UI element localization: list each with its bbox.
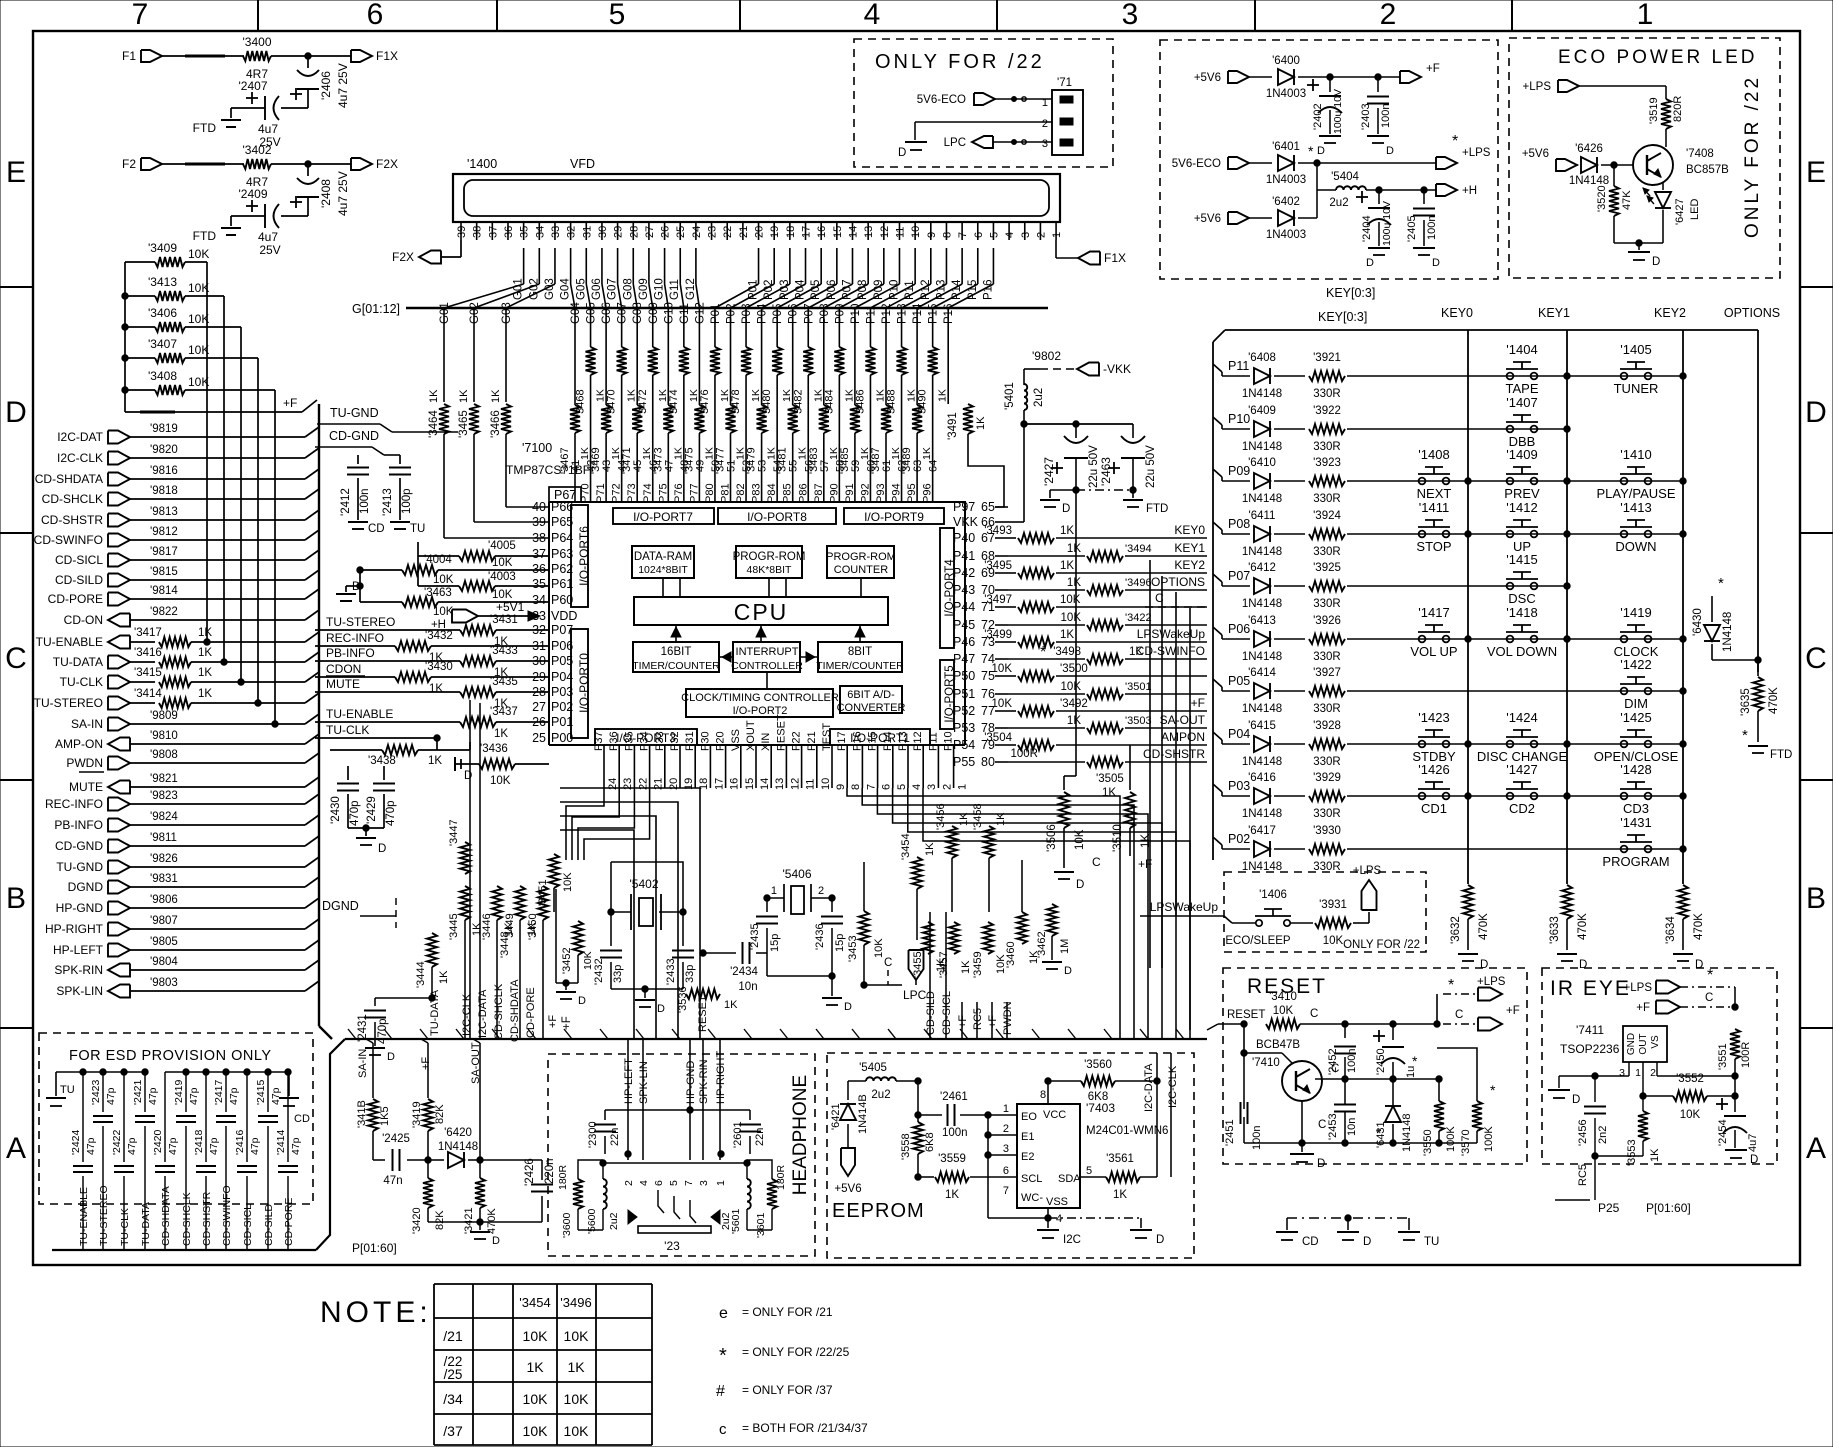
svg-text:'3510: '3510 (1112, 824, 1124, 852)
svg-text:1K: 1K (428, 389, 440, 403)
VFD pin 14 (848, 222, 860, 240)
svg-text:32: 32 (566, 226, 578, 238)
svg-text:FTD: FTD (1770, 749, 1792, 761)
svg-text:TU-ENABLE: TU-ENABLE (36, 635, 103, 649)
VFD pin 13 (863, 222, 875, 240)
VFD pin 16 (816, 222, 828, 240)
svg-text:'3445: '3445 (448, 913, 460, 940)
svg-text:'2427: '2427 (1042, 457, 1056, 486)
VFD wire P16 (948, 248, 994, 308)
svg-text:'3493: '3493 (984, 525, 1012, 537)
diode '6413 1N4148 (1222, 615, 1305, 663)
resistor '3407 10K (125, 337, 258, 363)
svg-text:P[01:60]: P[01:60] (352, 1241, 397, 1255)
svg-text:D: D (464, 770, 472, 782)
svg-text:1K: 1K (429, 683, 443, 695)
svg-text:+LPS: +LPS (1353, 865, 1382, 877)
svg-text:P09: P09 (1228, 464, 1250, 478)
svg-text:CD-SHSTR: CD-SHSTR (41, 513, 103, 527)
connector F1 (122, 49, 162, 63)
svg-text:TU-CLK: TU-CLK (60, 675, 103, 689)
svg-text:G09: G09 (638, 278, 650, 300)
route cpu bottom left fan (566, 788, 650, 860)
resistor '3498 1K CD-SWINFO (1008, 644, 1207, 664)
svg-text:5V6-ECO: 5V6-ECO (1172, 158, 1221, 170)
svg-text:I/O-PORT8: I/O-PORT8 (747, 510, 807, 524)
resistor '3465 1K (458, 347, 549, 522)
svg-text:4u7: 4u7 (258, 122, 278, 136)
svg-text:+F: +F (283, 396, 297, 410)
svg-text:1K: 1K (975, 416, 987, 430)
capacitor '2452 100n (1327, 1024, 1358, 1079)
svg-text:P72: P72 (611, 483, 623, 503)
svg-text:P84: P84 (766, 483, 778, 503)
svg-text:RESET: RESET (1227, 1009, 1265, 1021)
svg-text:IR EYE: IR EYE (1550, 977, 1631, 1000)
reset C row (1315, 1063, 1442, 1090)
CPU top pin 45 P73 (626, 460, 644, 503)
resistor '3634 470K (1665, 885, 1705, 971)
svg-text:56: 56 (803, 460, 815, 472)
VFD pin 10 (910, 222, 922, 240)
svg-text:PROGRAM: PROGRAM (1602, 854, 1669, 869)
capacitor '2456 2n2 (1577, 1076, 1609, 1200)
svg-text:'1422: '1422 (1620, 657, 1651, 672)
legend c (719, 1421, 868, 1438)
svg-text:GND: GND (1626, 1033, 1637, 1055)
grid column label 1 (1637, 0, 1654, 31)
capacitor '2431 470p (357, 998, 432, 1063)
capacitor '2454 4u7 (1716, 1096, 1759, 1166)
svg-text:P04: P04 (551, 670, 573, 684)
svg-text:22n: 22n (609, 1128, 621, 1146)
svg-text:5V6-ECO: 5V6-ECO (917, 94, 966, 106)
svg-text:3: 3 (1020, 232, 1032, 238)
VFD pin 33 (550, 222, 562, 240)
resistor '3414 1K (130, 688, 319, 708)
svg-text:1N4148: 1N4148 (1242, 546, 1282, 558)
svg-text:1K: 1K (1102, 787, 1116, 799)
capacitor '2412 100n (340, 455, 385, 535)
resistor '3504 AMPON (984, 730, 1207, 750)
VFD wire G06 (591, 248, 606, 308)
RESET title (1247, 975, 1327, 998)
key row P03 label (1213, 779, 1250, 796)
hp pin numbers (623, 1180, 727, 1186)
switches row P07 (1506, 552, 1570, 606)
svg-text:'1427: '1427 (1506, 762, 1537, 777)
svg-text:TU-STEREO: TU-STEREO (34, 696, 103, 710)
svg-text:P81: P81 (720, 483, 732, 503)
svg-text:330R: 330R (1313, 493, 1341, 505)
svg-text:'9808: '9808 (150, 749, 178, 761)
svg-text:I/O-PORT5: I/O-PORT5 (944, 665, 956, 722)
wire dashed (162, 55, 244, 57)
svg-text:D: D (1750, 1154, 1758, 1166)
svg-text:SPK-LIN: SPK-LIN (56, 984, 103, 998)
svg-text:'3499: '3499 (984, 629, 1012, 641)
capacitor '2424 47p (70, 1072, 97, 1232)
EEPROM IC labels (1086, 1101, 1168, 1137)
net P03 drop (741, 304, 753, 347)
svg-text:470K: 470K (1768, 687, 1780, 714)
svg-text:6K8: 6K8 (1088, 1091, 1108, 1103)
net P16 drop (943, 304, 955, 347)
svg-text:'3922: '3922 (1313, 405, 1341, 417)
ground D eeprom (1130, 1230, 1164, 1246)
svg-text:*: * (1412, 1053, 1418, 1069)
svg-text:C: C (1455, 1009, 1463, 1021)
svg-text:'4004: '4004 (424, 554, 452, 566)
svg-text:G10: G10 (654, 278, 666, 300)
wire SPK-LIN '9803 (130, 977, 319, 991)
svg-text:HP-RIGHT: HP-RIGHT (715, 1051, 727, 1104)
resistor '3501 10K (1008, 681, 1207, 699)
svg-text:470p: 470p (377, 1018, 389, 1044)
svg-text:44: 44 (617, 460, 629, 472)
svg-text:'3410: '3410 (1269, 991, 1297, 1003)
connector F2X (392, 240, 461, 264)
inductor '5401 2u2 (1004, 382, 1045, 427)
svg-text:D: D (1076, 879, 1084, 891)
svg-text:SPK-RIN: SPK-RIN (698, 1059, 710, 1104)
svg-text:'3457: '3457 (938, 951, 950, 978)
svg-text:28: 28 (532, 685, 546, 699)
resistor CD-SHSTR (1008, 747, 1207, 767)
svg-text:C: C (1310, 1008, 1318, 1020)
svg-text:'71: '71 (1057, 77, 1072, 89)
svg-text:CD-GND: CD-GND (329, 429, 379, 443)
VFD pin 9 (926, 222, 938, 240)
label '7411 TSOP2236 (1560, 1023, 1620, 1056)
svg-text:P11: P11 (1228, 359, 1249, 373)
resistor '3458 1K v (972, 803, 1007, 912)
connector +5V6 eeprom (834, 1148, 861, 1195)
key row P10 label (1213, 412, 1250, 429)
svg-text:'2413: '2413 (382, 488, 394, 516)
connector SA-IN (71, 717, 130, 731)
svg-text:CD-SILD: CD-SILD (55, 573, 103, 587)
svg-text:10K: 10K (433, 574, 454, 586)
svg-text:19: 19 (769, 226, 781, 238)
svg-text:M24C01-WMN6: M24C01-WMN6 (1086, 1125, 1168, 1137)
resistor '3472 1K (637, 347, 669, 502)
svg-text:P92: P92 (859, 483, 871, 503)
connector F2X (351, 157, 398, 171)
svg-text:I2C-CLK: I2C-CLK (57, 451, 103, 465)
CPU top pin 56 P86 (797, 460, 815, 503)
resonator '5406 (764, 867, 835, 914)
connector HP-GND (56, 901, 130, 915)
svg-text:'3536: '3536 (677, 986, 689, 1013)
svg-text:HP-GND: HP-GND (685, 1061, 697, 1104)
capacitor '2405 100n (1406, 190, 1440, 269)
note row 2225 (444, 1354, 586, 1382)
svg-text:4: 4 (638, 1180, 650, 1186)
VFD pin 15 (832, 222, 844, 240)
resistor '3478 1K (730, 347, 762, 502)
svg-text:+F: +F (547, 1015, 559, 1028)
INTERRUPT box (731, 642, 803, 672)
svg-text:330R: 330R (1313, 598, 1341, 610)
svg-text:'9818: '9818 (150, 485, 178, 497)
svg-text:'3632: '3632 (1450, 916, 1462, 944)
svg-text:1N4003: 1N4003 (1266, 174, 1306, 186)
svg-text:'7403: '7403 (1086, 1101, 1115, 1115)
net G02 drop (469, 302, 481, 347)
wire AMP-ON '9810 (130, 730, 319, 744)
resistor '3519 820R v (1648, 96, 1684, 147)
svg-text:65: 65 (981, 500, 995, 514)
svg-text:G04: G04 (560, 278, 572, 300)
svg-text:'1404: '1404 (1506, 342, 1537, 357)
wire REC-INFO '9823 (130, 790, 319, 804)
CPU top pin 47 P75 (657, 460, 675, 503)
svg-text:30: 30 (597, 226, 609, 238)
svg-text:VS: VS (1650, 1035, 1661, 1049)
resistor '3464 1K (428, 347, 549, 538)
connector '9802 -VKK (1024, 349, 1131, 385)
wires mid drop (930, 1002, 1007, 1039)
label DGND mid (322, 898, 396, 928)
route right of cpu (1150, 560, 1190, 1030)
svg-text:1K: 1K (937, 389, 949, 402)
svg-text:10n: 10n (738, 981, 757, 993)
svg-text:CD: CD (294, 1113, 310, 1125)
resistor '3500 10K (992, 663, 1207, 681)
capacitor '2433 33p (665, 912, 696, 989)
svg-text:G11: G11 (669, 279, 681, 300)
diode '6430 1N4148 (1692, 575, 1734, 660)
connector +H +5V1 (431, 600, 540, 631)
CPU top pin 57 P87 (813, 460, 831, 503)
svg-text:CD-SHSTR: CD-SHSTR (201, 1191, 213, 1246)
svg-text:-VKK: -VKK (1103, 362, 1131, 376)
grid tick left (0, 532, 33, 534)
VFD pin 6 (973, 222, 985, 240)
svg-text:P83: P83 (751, 483, 763, 503)
cpu arrows (663, 578, 865, 689)
svg-text:TU-DATA: TU-DATA (429, 989, 441, 1036)
svg-text:D: D (1805, 396, 1827, 429)
svg-text:'9819: '9819 (150, 423, 178, 435)
svg-text:62: 62 (897, 460, 909, 472)
svg-text:P86: P86 (797, 483, 809, 503)
CPU pin 27 P02 (532, 700, 573, 714)
svg-text:26: 26 (660, 226, 672, 238)
svg-text:P12: P12 (912, 731, 924, 751)
svg-text:100n: 100n (942, 1127, 968, 1139)
svg-text:2: 2 (623, 1180, 635, 1186)
svg-text:'3492: '3492 (1060, 698, 1088, 710)
VFD labels (467, 157, 595, 171)
wire CD-PORE '9814 (130, 585, 319, 599)
switches row P06 (1410, 605, 1686, 659)
capacitor '2450 1u (1373, 1024, 1418, 1079)
CPU top pin 60 P92 (859, 460, 877, 503)
resistor '3436 10K (455, 743, 549, 787)
svg-text:+5V6: +5V6 (834, 1183, 861, 1195)
bus G[01:12] (352, 302, 1048, 316)
net label TU-ENABLE (326, 707, 393, 721)
svg-text:32: 32 (532, 623, 546, 637)
CPU pin 38 P64 (532, 531, 573, 545)
ground D crystal (611, 927, 683, 1015)
svg-text:'2430: '2430 (330, 796, 342, 824)
svg-text:KEY1: KEY1 (1538, 306, 1570, 320)
svg-text:'3456: '3456 (935, 803, 947, 830)
wire dashed (162, 163, 244, 165)
svg-text:+F: +F (561, 1016, 573, 1030)
connector DGND (68, 880, 130, 894)
svg-text:P45: P45 (953, 618, 975, 632)
svg-text:17: 17 (713, 778, 725, 790)
resistor '3489 1K (901, 347, 933, 502)
VFD pin 39 (456, 222, 468, 240)
labels rotated mid-left (429, 979, 559, 1042)
svg-text:1K: 1K (1649, 1148, 1661, 1162)
svg-text:'6421: '6421 (830, 1103, 842, 1130)
key column KEY0 (1467, 330, 1469, 884)
capacitor '2414 47p (275, 1072, 302, 1232)
VFD wire G07 (607, 248, 622, 308)
resistor '3421 470K v (463, 1160, 498, 1234)
svg-text:1K: 1K (1060, 560, 1074, 572)
svg-text:P73: P73 (626, 483, 638, 503)
svg-text:1: 1 (1003, 1103, 1009, 1115)
svg-text:1K: 1K (490, 389, 502, 403)
svg-text:PROGR-ROM: PROGR-ROM (826, 551, 896, 563)
svg-text:I2C-CLK: I2C-CLK (1167, 1065, 1179, 1108)
svg-text:'3558: '3558 (900, 1133, 912, 1160)
I/O-PORT0 box (571, 629, 591, 738)
CPU pin 40 P66 (532, 500, 573, 514)
svg-text:P04: P04 (757, 303, 769, 324)
harness esd segment (52, 1249, 316, 1251)
svg-text:470K: 470K (1577, 913, 1589, 940)
capacitor '2421 47p (132, 1072, 159, 1232)
resistor '3928 330R (1309, 720, 1683, 768)
labels rotated mid (925, 991, 1014, 1035)
svg-text:53: 53 (757, 460, 769, 472)
CPU right pin 66 VKK (953, 515, 1008, 529)
svg-text:P00: P00 (551, 731, 573, 745)
ESD signal TU-DATA (137, 1202, 152, 1250)
CPU top pin 42 P70 (580, 460, 598, 503)
HEADPHONE dashed box (548, 1054, 815, 1256)
svg-text:C: C (1092, 855, 1101, 869)
resistor '3457 1K v (938, 922, 972, 978)
svg-text:1: 1 (1051, 232, 1063, 238)
svg-text:P08: P08 (819, 304, 831, 324)
connector 5V6-ECO top (917, 93, 1052, 106)
svg-text:F1X: F1X (376, 49, 398, 63)
svg-text:37: 37 (532, 547, 546, 561)
ECO POWER LED dashed box (1509, 38, 1780, 278)
svg-text:P05: P05 (551, 654, 573, 668)
resistor '3923 330R (1309, 457, 1683, 505)
VFD pin 31 (581, 222, 593, 240)
svg-text:3: 3 (926, 784, 938, 790)
connector +5V6 c (1194, 212, 1272, 225)
svg-text:47p: 47p (85, 1137, 97, 1155)
CPU bottom pin 6 P15 (867, 731, 893, 790)
svg-text:18: 18 (785, 226, 797, 238)
svg-text:SA-IN: SA-IN (71, 717, 103, 731)
capacitor '2404 100u 10V (1356, 190, 1393, 269)
resistor '3487 1K (870, 347, 902, 502)
svg-text:31: 31 (581, 226, 593, 238)
VFD wire P15 (933, 248, 979, 308)
svg-text:15: 15 (744, 778, 756, 790)
svg-text:2n2: 2n2 (1597, 1126, 1609, 1144)
resistor '3536 1K (677, 975, 738, 1032)
CPU bottom pin 9 TEST (821, 723, 847, 790)
svg-text:D: D (1695, 959, 1703, 971)
net label TU-STEREO (326, 615, 395, 629)
resistor '3456 1K v (935, 803, 970, 912)
svg-text:'9806: '9806 (150, 894, 178, 906)
note table grid (434, 1284, 652, 1445)
8BIT TIMER box (816, 642, 904, 672)
CPU bottom pin 10 P21 (806, 731, 832, 790)
svg-text:+F: +F (1506, 1005, 1520, 1017)
svg-text:'2423: '2423 (90, 1079, 102, 1105)
net P05 drop (772, 304, 784, 347)
svg-text:'7100: '7100 (522, 441, 552, 455)
svg-text:33p: 33p (684, 965, 696, 983)
svg-text:'3422: '3422 (1125, 612, 1152, 624)
net G03 drop (501, 302, 513, 347)
svg-text:'3923: '3923 (1313, 457, 1341, 469)
svg-text:'3506: '3506 (1046, 824, 1058, 852)
svg-text:'6426: '6426 (1575, 143, 1603, 155)
svg-text:'3520: '3520 (1596, 185, 1608, 212)
svg-text:EO: EO (1021, 1111, 1037, 1123)
ESD signal CD-SHDATA (157, 1186, 172, 1250)
svg-text:33: 33 (550, 226, 562, 238)
capacitor '2419 47p (173, 1072, 200, 1232)
svg-text:'4003: '4003 (488, 571, 516, 583)
svg-text:P[01:60]: P[01:60] (1646, 1201, 1691, 1215)
svg-text:P52: P52 (953, 704, 975, 718)
svg-text:+F: +F (420, 1057, 432, 1070)
svg-text:25: 25 (675, 226, 687, 238)
CPU bottom pin 18 P31 (684, 731, 710, 790)
net P04 drop (757, 303, 769, 347)
grid row label E right (1806, 156, 1826, 189)
svg-text:KEY2: KEY2 (1174, 558, 1205, 572)
ground D caps (348, 825, 386, 855)
diode '6415 1N4148 (1222, 720, 1305, 768)
svg-text:TU-DATA: TU-DATA (140, 1202, 152, 1246)
svg-text:P46: P46 (953, 635, 975, 649)
svg-text:SA-IN: SA-IN (357, 1049, 369, 1078)
svg-text:4u7 25V: 4u7 25V (336, 63, 350, 108)
svg-text:'1411: '1411 (1419, 500, 1449, 515)
svg-text:'9804: '9804 (150, 956, 178, 968)
svg-text:'1409: '1409 (1506, 447, 1537, 462)
svg-text:P13: P13 (897, 731, 909, 751)
resistor '3491 1K (947, 347, 1004, 507)
CPU pin 32 P07 (532, 623, 573, 637)
svg-text:36: 36 (503, 226, 515, 238)
grid tick left (0, 779, 33, 781)
CPU pin 28 P03 (532, 685, 573, 699)
svg-text:P35: P35 (623, 731, 635, 751)
capacitor '2426 220n (524, 1158, 556, 1222)
CPU pin 25 P00 (532, 731, 573, 745)
